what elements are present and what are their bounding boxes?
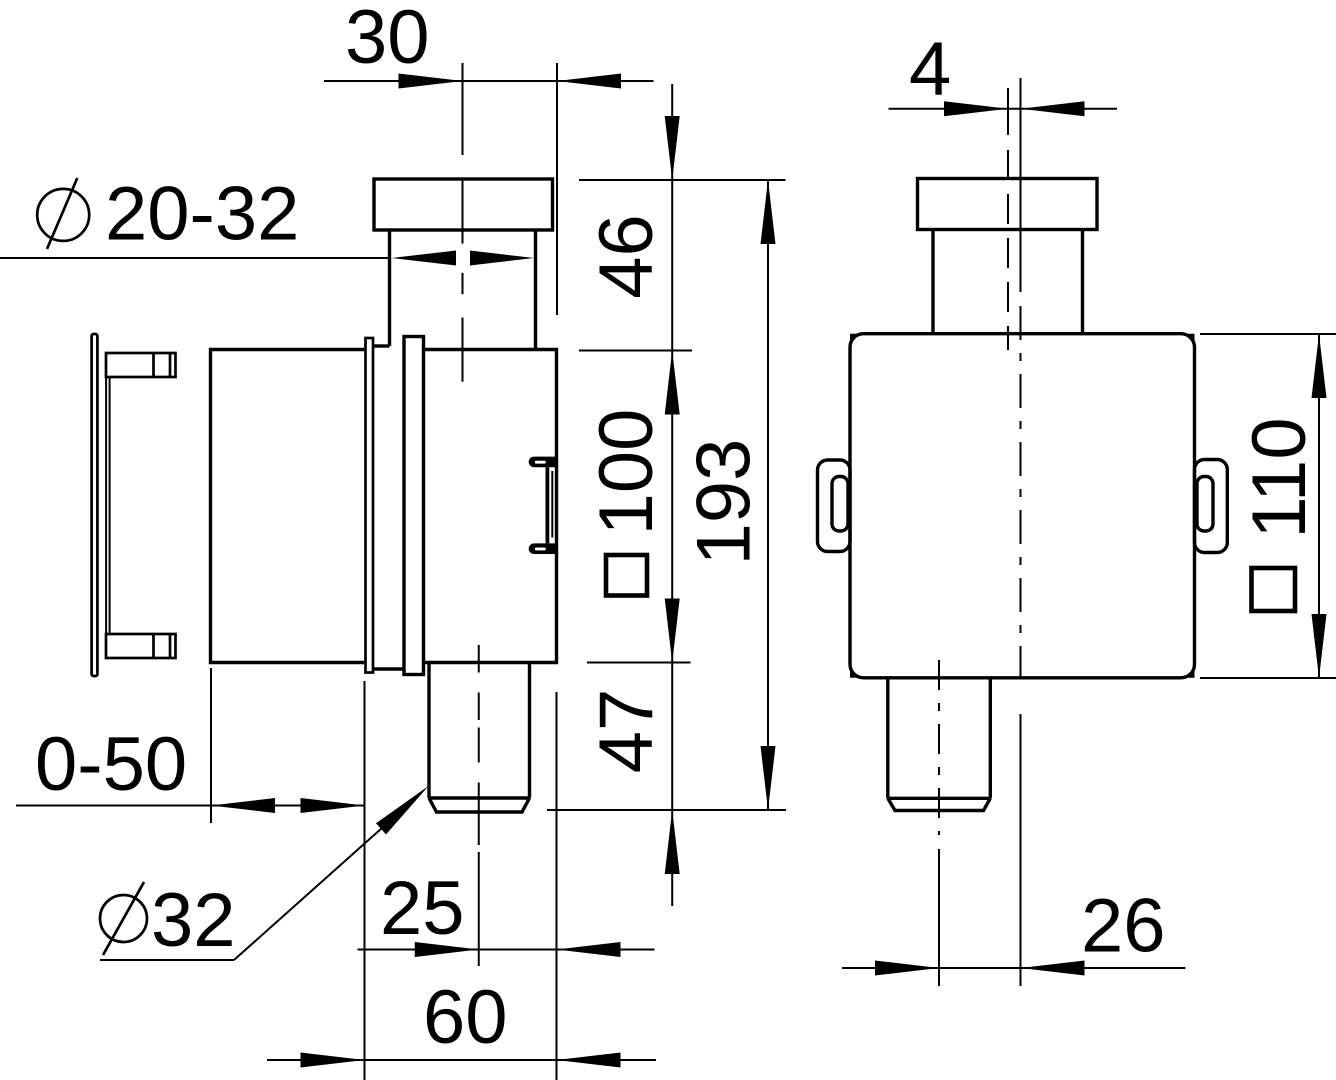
svg-text:100: 100	[584, 409, 669, 536]
svg-text:32: 32	[151, 878, 236, 963]
svg-text:0-50: 0-50	[35, 722, 187, 807]
svg-text:60: 60	[423, 975, 508, 1060]
svg-text:193: 193	[682, 439, 767, 566]
svg-text:110: 110	[1237, 417, 1322, 538]
svg-text:30: 30	[345, 0, 430, 80]
svg-text:25: 25	[380, 866, 465, 951]
svg-text:26: 26	[1081, 884, 1166, 969]
svg-text:46: 46	[584, 214, 669, 299]
svg-text:20-32: 20-32	[105, 172, 299, 257]
svg-text:47: 47	[584, 689, 669, 774]
svg-text:4: 4	[909, 27, 951, 112]
